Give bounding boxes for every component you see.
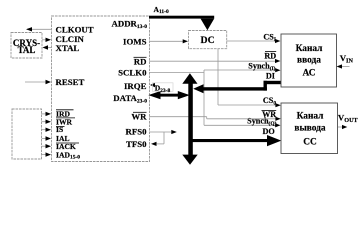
svg-text:TFS0: TFS0: [126, 139, 147, 149]
svg-text:Канал: Канал: [297, 111, 325, 121]
svg-text:IRQE: IRQE: [124, 81, 147, 91]
svg-text:DI: DI: [266, 71, 275, 80]
svg-text:RD: RD: [264, 51, 276, 60]
svg-text:IS: IS: [56, 125, 63, 134]
svg-text:вывода: вывода: [294, 124, 326, 134]
svg-text:АС: АС: [302, 69, 315, 79]
svg-text:RD: RD: [134, 56, 147, 66]
svg-text:TAL: TAL: [18, 45, 36, 55]
svg-text:DC: DC: [201, 35, 215, 46]
svg-text:Канал: Канал: [296, 44, 324, 54]
svg-text:CLKOUT: CLKOUT: [56, 25, 94, 35]
svg-text:SCLK0: SCLK0: [118, 68, 147, 78]
svg-text:СС: СС: [303, 137, 317, 147]
svg-text:WR: WR: [262, 110, 276, 119]
svg-text:RFS0: RFS0: [125, 126, 147, 136]
svg-text:DO: DO: [263, 127, 275, 136]
svg-text:WR: WR: [131, 112, 147, 122]
svg-text:XTAL: XTAL: [56, 43, 80, 53]
svg-text:ввода: ввода: [297, 56, 321, 66]
svg-text:RESET: RESET: [56, 77, 85, 87]
svg-text:IOMS: IOMS: [123, 37, 147, 47]
